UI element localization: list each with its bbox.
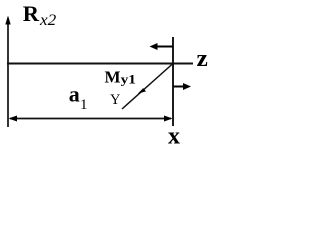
- Y axis diagonal line: [122, 64, 173, 110]
- right-pointing arrow below z axis: [173, 83, 191, 90]
- svg-text:Y: Y: [110, 92, 121, 108]
- svg-text:y1: y1: [121, 72, 136, 86]
- beam axis line (horizontal, to z): [7, 63, 193, 65]
- moment arrowhead M_y1 on Y axis: [138, 88, 146, 94]
- svg-text:R: R: [23, 1, 40, 26]
- left-pointing arrow at top of x axis: [150, 43, 174, 50]
- svg-text:M: M: [105, 68, 121, 87]
- dimension line a1 with two arrowheads: [9, 116, 173, 122]
- vertical line at right (x axis): [172, 37, 174, 126]
- svg-text:x2: x2: [39, 12, 56, 29]
- svg-text:a: a: [69, 82, 80, 107]
- svg-text:z: z: [197, 46, 209, 72]
- force arrow R_x2 (vertical up at left): [5, 16, 10, 128]
- svg-text:1: 1: [80, 97, 88, 113]
- svg-text:x: x: [168, 124, 180, 150]
